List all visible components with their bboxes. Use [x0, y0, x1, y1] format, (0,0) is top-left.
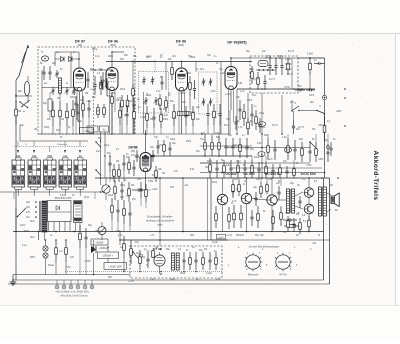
svg-text:+3000µF: +3000µF — [99, 248, 109, 250]
svg-text:90V: 90V — [163, 109, 168, 111]
page fold line bottom — [0, 305, 400, 307]
svg-text:1M: 1M — [131, 185, 134, 187]
svg-text:50µ: 50µ — [88, 225, 93, 227]
svg-text:(96): (96) — [131, 150, 135, 153]
svg-text:460k: 460k — [247, 100, 253, 102]
svg-text:+62V: +62V — [152, 189, 158, 191]
svg-text:90V: 90V — [190, 235, 195, 237]
tuner coil L1 — [59, 78, 62, 93]
svg-text:C-Antenne: C-Antenne — [57, 143, 68, 146]
svg-text:+86V: +86V — [318, 125, 324, 127]
right small cap — [314, 63, 319, 65]
dial lamps — [43, 246, 48, 251]
tube V4 DF96 — [225, 67, 237, 90]
svg-text:100p: 100p — [215, 133, 221, 135]
tube V1 DF97 — [74, 68, 86, 91]
tube V3 DF96 — [176, 68, 188, 91]
page fold line top — [0, 33, 400, 35]
svg-text:220V: 220V — [20, 225, 26, 227]
DM70 transformer — [172, 253, 175, 270]
svg-text:460k: 460k — [186, 73, 192, 75]
dashed partition x93 — [93, 47, 95, 134]
audio board outline — [210, 178, 212, 240]
svg-text:54,7V: 54,7V — [287, 74, 293, 76]
speaker wires — [327, 193, 331, 195]
svg-text:1M: 1M — [61, 119, 64, 121]
svg-text:0,1µ: 0,1µ — [236, 161, 241, 163]
svg-text:0,1µF: 0,1µF — [140, 117, 147, 119]
svg-text:1M: 1M — [34, 129, 37, 131]
svg-text:1M: 1M — [85, 93, 88, 95]
svg-text:+1,4V: +1,4V — [226, 235, 233, 237]
mixer wires3 — [251, 156, 253, 160]
output transformer — [319, 187, 322, 216]
svg-text:DF 96(965): DF 96(965) — [227, 41, 247, 45]
right cap — [295, 89, 299, 91]
selenium rectifier — [74, 201, 83, 223]
IF1 cluster — [101, 80, 103, 83]
socket diagrams — [246, 255, 260, 269]
IF2 dotted box — [199, 72, 218, 114]
svg-text:2,4V: 2,4V — [150, 279, 155, 281]
board parts 2 — [266, 182, 268, 185]
mains transformer — [39, 201, 41, 232]
svg-text:1M: 1M — [204, 249, 207, 251]
wire y58 right — [297, 57, 325, 59]
tuner boxed label — [80, 128, 94, 134]
IF1 resistors — [121, 95, 123, 100]
svg-text:+K(1,5) Batt(+) 2(-) 90(A): +K(1,5) Batt(+) 2(-) 90(A) 4(D) — [55, 291, 89, 294]
left resistor — [15, 100, 17, 109]
svg-text:100p: 100p — [44, 127, 50, 129]
svg-text:0,5µ: 0,5µ — [226, 165, 231, 167]
svg-text:+70V: +70V — [210, 91, 216, 93]
page edge line right — [395, 34, 397, 307]
svg-text:AM: AM — [310, 101, 314, 104]
Q0 parts — [215, 206, 217, 214]
svg-text:DF 96: DF 96 — [176, 40, 186, 44]
svg-text:FM: FM — [290, 102, 293, 104]
electrolytic C101 label box — [104, 263, 127, 270]
svg-text:So-ckel Steckverbindungen: So-ckel Steckverbindungen — [249, 246, 280, 249]
left input parts — [24, 81, 29, 95]
svg-text:0002: 0002 — [219, 237, 225, 239]
IF2 lower parts — [207, 104, 209, 114]
svg-text:DF 96: DF 96 — [108, 40, 118, 44]
can bottom stubs — [17, 189, 19, 196]
svg-text:+86V: +86V — [336, 111, 342, 113]
svg-text:25µ: 25µ — [290, 183, 295, 185]
svg-text:(962): (962) — [110, 43, 116, 47]
board extra parts — [287, 216, 289, 221]
mixer wires2 — [226, 147, 310, 149]
tuner extra caps — [43, 66, 45, 72]
right mid cluster2 — [310, 142, 316, 148]
speaker LS — [331, 196, 334, 204]
svg-text:0,1µ: 0,1µ — [147, 56, 152, 58]
svg-text:+2V: +2V — [216, 279, 221, 281]
svg-text:+45V: +45V — [86, 101, 92, 103]
IF2 trimmers — [203, 78, 205, 81]
svg-text:0,1µF: 0,1µF — [212, 242, 219, 244]
svg-text:40µ: 40µ — [98, 138, 103, 140]
left agc arrow — [15, 94, 17, 97]
IF1 wires — [111, 107, 113, 134]
scan speckle — [131, 75, 134, 78]
dm70 left extra — [147, 252, 149, 259]
if stage extra res — [159, 94, 161, 99]
svg-text:90V: 90V — [170, 187, 175, 189]
v3 if mid parts — [157, 140, 159, 146]
ratio det lower — [257, 72, 259, 78]
svg-text:50µ: 50µ — [150, 119, 155, 121]
tube V1 stem — [79, 92, 81, 134]
transistor Q0 — [217, 194, 227, 204]
svg-text:54,7V: 54,7V — [288, 51, 294, 53]
svg-text:3Ω: 3Ω — [330, 185, 333, 187]
rectifier block — [48, 201, 72, 222]
wire right bus x324 — [324, 58, 326, 95]
svg-text:+1,4V: +1,4V — [90, 89, 97, 91]
svg-text:+90V: +90V — [170, 279, 176, 281]
svg-text:460k: 460k — [186, 141, 192, 143]
svg-text:90V: 90V — [108, 277, 113, 279]
svg-text:50Hz: 50Hz — [30, 257, 36, 259]
mixer long wires — [200, 162, 310, 164]
tube V4 stems — [230, 58, 232, 67]
svg-text:0,5M: 0,5M — [148, 181, 153, 183]
svg-text:1M: 1M — [18, 111, 21, 113]
tuner cap row wires — [42, 87, 79, 89]
transistor Q4 — [304, 204, 314, 214]
mixer wires — [229, 110, 231, 134]
svg-text:Röhrenteil: Röhrenteil — [248, 274, 259, 277]
dashed box DM70 unit — [130, 246, 222, 278]
ground main — [12, 279, 14, 283]
wire bus y275 — [13, 274, 130, 276]
can feed dashed — [14, 146, 86, 148]
long vertical x183 — [182, 178, 184, 232]
wire bus y232 — [13, 231, 324, 233]
left of DM70 parts — [123, 236, 125, 244]
svg-text:170pF: 170pF — [285, 69, 292, 71]
more v4 lower — [239, 100, 241, 109]
board parts 1 — [232, 180, 234, 185]
svg-text:DF 97: DF 97 — [75, 40, 85, 44]
tube V6 magic eye — [154, 255, 165, 266]
svg-text:200p: 200p — [92, 49, 98, 51]
svg-text:300p: 300p — [163, 119, 169, 121]
IF2 resistors — [189, 76, 191, 83]
can bottom rail — [0, 191, 105, 193]
coupling parts — [132, 189, 138, 191]
svg-text:+7V: +7V — [150, 235, 155, 237]
driver transformer — [287, 189, 290, 213]
svg-text:170p: 170p — [266, 56, 272, 58]
svg-text:25µ: 25µ — [136, 253, 141, 255]
svg-text:+86V: +86V — [318, 159, 324, 161]
left if wire — [132, 60, 134, 134]
svg-text:1M: 1M — [162, 173, 165, 175]
ratio det wires — [291, 58, 293, 89]
svg-text:(96): (96) — [78, 43, 83, 47]
more v3 lower — [173, 104, 175, 112]
svg-text:24,7V: 24,7V — [298, 127, 304, 129]
transistor Q2 — [267, 195, 277, 205]
wire top bus — [106, 61, 252, 63]
svg-text:50µ: 50µ — [107, 153, 112, 155]
antenna — [19, 45, 28, 76]
svg-text:(964): (964) — [178, 43, 184, 47]
svg-text:24,7V: 24,7V — [269, 79, 275, 81]
right mid cluster — [267, 138, 269, 146]
svg-text:300p: 300p — [207, 161, 213, 163]
wire left vertical — [15, 80, 17, 280]
svg-text:25µ: 25µ — [255, 235, 260, 237]
long vertical x160 — [159, 178, 161, 246]
svg-text:100p: 100p — [254, 157, 260, 159]
junction dots — [111, 51, 113, 53]
electrolytic C100 label box — [98, 252, 119, 259]
svg-text:+45V: +45V — [110, 93, 116, 95]
svg-text:0,1µ: 0,1µ — [22, 245, 27, 247]
svg-text:170Ω: 170Ω — [284, 87, 290, 89]
svg-text:NTC: NTC — [285, 213, 290, 215]
wire bus y240 — [120, 239, 228, 241]
right mid extra — [315, 142, 317, 149]
power boxed label3 — [91, 239, 108, 245]
svg-text:450k: 450k — [212, 182, 218, 184]
tube V2 stems — [111, 52, 113, 68]
board parts 3 — [246, 178, 248, 193]
svg-text:100p: 100p — [129, 101, 135, 103]
svg-text:10nF: 10nF — [309, 95, 315, 97]
svg-text:50Hz: 50Hz — [24, 231, 30, 233]
wire mid bus y156 — [151, 155, 252, 157]
v1 lower parts — [75, 96, 77, 103]
svg-text:1M: 1M — [116, 161, 119, 163]
extra marks pass2 — [100, 191, 102, 193]
svg-text:25µ: 25µ — [132, 199, 137, 201]
tube V5 DK96 dark — [140, 153, 151, 172]
svg-text:fm: fm — [23, 111, 26, 113]
mixer row1 parts — [204, 136, 206, 143]
svg-text:10µ: 10µ — [253, 187, 258, 189]
frame bottom line — [8, 283, 330, 285]
svg-text:+150V: +150V — [94, 231, 101, 233]
svg-text:NTC: NTC — [66, 267, 71, 269]
svg-text:50µ: 50µ — [166, 249, 171, 251]
mid-left cluster — [111, 198, 113, 206]
svg-text:1M: 1M — [155, 247, 158, 249]
svg-text:NF-Teil: NF-Teil — [279, 275, 287, 277]
svg-text:4µF: 4µF — [96, 151, 101, 153]
mains selector switch — [18, 208, 26, 216]
circled letters — [258, 152, 265, 157]
can feed arrows — [17, 150, 19, 153]
svg-text:4µF: 4µF — [120, 197, 125, 199]
NTC resistor — [55, 240, 57, 248]
ratio det transistor box — [258, 61, 268, 67]
volume pot — [102, 185, 110, 193]
svg-text:werk: werk — [157, 224, 163, 227]
svg-text:90V: 90V — [116, 231, 121, 233]
IF1 dotted box — [139, 72, 169, 114]
DM70 parts — [183, 252, 185, 260]
svg-text:Tr: Tr — [25, 143, 27, 146]
svg-text:25µ: 25µ — [260, 235, 265, 237]
svg-text:100p: 100p — [259, 113, 265, 115]
more top if parts2 — [146, 106, 148, 114]
mixer row2 parts — [209, 158, 211, 165]
svg-text:40µ: 40µ — [91, 129, 96, 131]
svg-text:110V: 110V — [84, 197, 90, 199]
svg-text:RGN B30 C250: RGN B30 C250 — [55, 197, 72, 200]
tuner diodes — [61, 57, 65, 62]
svg-text:+9V: +9V — [312, 243, 317, 245]
more top if parts — [102, 72, 104, 80]
switch S2 — [317, 111, 325, 114]
bottom bus wire — [13, 279, 324, 281]
det parts — [114, 180, 116, 187]
svg-text:FM: FM — [312, 129, 315, 131]
svg-text:Akku Batt 2-Volt Chassis: Akku Batt 2-Volt Chassis — [59, 295, 88, 298]
wire bus y178 — [95, 177, 330, 179]
svg-text:380pF: 380pF — [285, 64, 292, 66]
svg-text:0,1µF: 0,1µF — [285, 59, 292, 61]
switch S1 — [292, 106, 299, 111]
svg-text:+150V: +150V — [84, 261, 91, 263]
tuner small parts — [94, 76, 96, 85]
svg-text:100p: 100p — [146, 95, 152, 97]
tuner extra2 — [72, 100, 74, 110]
left small switch — [22, 100, 30, 106]
svg-text:+70V: +70V — [306, 165, 312, 167]
svg-text:Skala: Skala — [48, 265, 54, 267]
svg-text:10µ: 10µ — [256, 179, 261, 181]
svg-text:0,1µF: 0,1µF — [162, 115, 169, 117]
tuner cap row — [52, 87, 54, 90]
svg-text:54,7V: 54,7V — [272, 125, 278, 127]
dashed box ratio detector — [250, 56, 298, 93]
power extra parts — [79, 225, 81, 233]
det vertical wires — [100, 132, 102, 185]
svg-text:100p: 100p — [170, 139, 176, 141]
power wiring — [48, 222, 50, 232]
svg-text:+1,4V: +1,4V — [128, 281, 135, 283]
tuner resistors lower — [52, 101, 54, 110]
svg-text:1M: 1M — [57, 98, 60, 100]
svg-text:0,47: 0,47 — [234, 179, 239, 181]
board top stubs — [232, 178, 234, 180]
IF2 wires — [189, 96, 191, 110]
tube V3 stems — [181, 62, 183, 69]
wire dotted bus y271 — [65, 271, 222, 273]
boxed label 40uF — [87, 126, 98, 132]
transistor Q1 — [241, 193, 251, 203]
rectifier diode D1 — [91, 246, 96, 253]
IF1 trimmers — [143, 77, 145, 80]
svg-text:54,7V: 54,7V — [253, 79, 259, 81]
dashed box tuner unit — [38, 47, 135, 134]
svg-text:200p: 200p — [108, 56, 114, 58]
wire tuner bottom — [38, 133, 230, 135]
svg-text:6,3V: 6,3V — [60, 195, 65, 197]
svg-text:am: am — [56, 52, 59, 54]
det cluster parts — [109, 156, 111, 163]
ratio det caps — [269, 58, 271, 66]
svg-text:380p: 380p — [278, 56, 284, 58]
pot P2 — [98, 227, 106, 235]
wire x71 in tuner — [70, 52, 72, 88]
transistor Q3 — [304, 188, 314, 198]
svg-text:+2V: +2V — [184, 185, 189, 187]
det area extra — [140, 182, 142, 189]
svg-text:90µ: 90µ — [246, 51, 251, 53]
svg-text:0,1µF: 0,1µF — [206, 273, 213, 275]
tube V5 stems — [145, 130, 147, 153]
V3 coil bar — [178, 112, 191, 116]
svg-text:25µF: 25µF — [180, 273, 186, 275]
tube V2 DF96 — [106, 68, 118, 91]
svg-text:4V: 4V — [72, 195, 75, 197]
svg-text:+45V: +45V — [180, 93, 186, 95]
svg-text:50µ: 50µ — [199, 250, 204, 252]
svg-text:0,1µ: 0,1µ — [95, 56, 100, 58]
board divider dots — [210, 178, 212, 240]
svg-text:0V: 0V — [196, 279, 199, 281]
junction dots 2 — [100, 140, 102, 142]
tuner top wires — [78, 52, 80, 68]
can feed bus — [20, 140, 88, 142]
more mixer row3 — [251, 160, 253, 166]
power resistor 2 — [65, 240, 67, 248]
svg-text:am: am — [44, 83, 47, 85]
svg-text:Akkord-Trifels: Akkord-Trifels — [372, 151, 379, 201]
svg-text:+12V: +12V — [260, 127, 266, 129]
svg-text:90V: 90V — [96, 111, 101, 113]
DM70 left parts — [139, 250, 141, 257]
svg-text:1000µF +: 1000µF + — [103, 255, 114, 258]
svg-text:NTC: NTC — [59, 251, 64, 253]
right inner frame wire — [323, 178, 325, 280]
tuner boxed resistor — [48, 99, 52, 111]
svg-text:25µ: 25µ — [135, 242, 140, 244]
electrolytic stub wires — [107, 247, 109, 252]
svg-text:300p: 300p — [70, 97, 76, 99]
svg-text:40µF: 40µF — [104, 145, 110, 147]
dial lamp M1 — [41, 56, 48, 61]
right bus parts — [324, 116, 326, 126]
svg-text:Lautst.: Lautst. — [110, 177, 117, 180]
svg-text:+62V: +62V — [232, 145, 238, 147]
battery plug contacts — [55, 285, 59, 289]
svg-text:40µF: 40µF — [108, 195, 114, 197]
frame right line — [329, 178, 331, 284]
v5 side parts — [136, 150, 138, 155]
svg-text:3Ω: 3Ω — [334, 209, 337, 212]
svg-text:+ 50µF 150V: + 50µF 150V — [108, 265, 122, 268]
svg-text:+300µF: +300µF — [96, 243, 104, 245]
svg-text:40µ: 40µ — [90, 133, 95, 135]
svg-text:+2V: +2V — [158, 145, 163, 147]
svg-text:460k: 460k — [120, 89, 126, 91]
svg-text:300p: 300p — [120, 185, 126, 187]
svg-text:2,2kΩ: 2,2kΩ — [307, 53, 314, 56]
wire bus y89 — [237, 88, 315, 90]
svg-text:+12V: +12V — [225, 94, 231, 96]
boxed label 4uF — [100, 126, 109, 132]
